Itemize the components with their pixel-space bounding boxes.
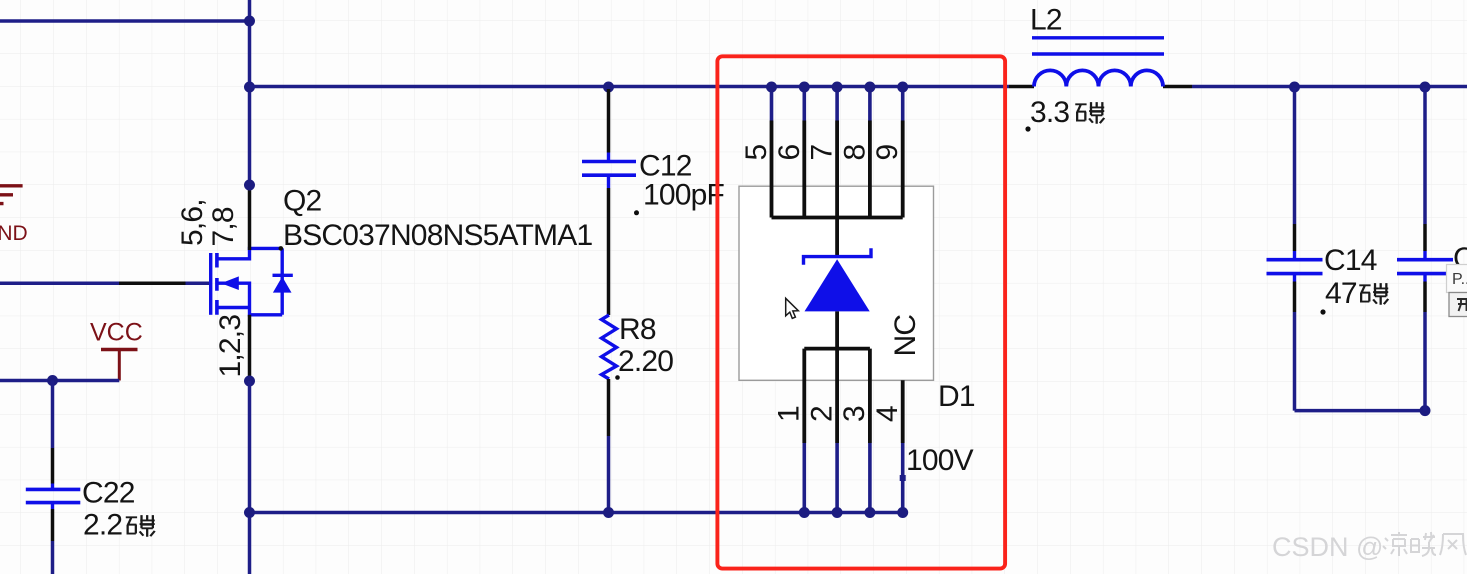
wire C22 branch: [51, 381, 55, 574]
capacitor C22: [26, 484, 81, 510]
svg-text:D1: D1: [938, 380, 975, 413]
svg-text:VCC: VCC: [90, 319, 143, 347]
D1 top pin stubs: [772, 88, 903, 121]
pin number 3: [838, 406, 871, 422]
wire C14 branch: [1293, 88, 1297, 411]
svg-text:2.2: 2.2: [83, 509, 122, 542]
svg-text:8: 8: [838, 145, 871, 161]
designator D1: [938, 380, 975, 413]
value label 100V: [906, 444, 974, 477]
pin number 9: [871, 145, 904, 161]
junction bottom R8: [603, 507, 614, 518]
svg-text:Q2: Q2: [283, 185, 322, 218]
junction pins 5-9 on bus: [766, 82, 908, 93]
value label BSC037N08NS5ATMA1: [283, 219, 592, 252]
pin number 7: [806, 145, 839, 161]
R8 bottom pin: [607, 379, 611, 513]
svg-text:100pF: 100pF: [643, 179, 725, 212]
Q2 pin numbers 5,6,: [176, 199, 209, 246]
Q2 pin numbers 7,8: [207, 207, 240, 246]
pin number 1: [773, 406, 806, 422]
designator C14: [1324, 244, 1377, 277]
svg-text:GND: GND: [0, 222, 28, 245]
wire main bus: [250, 85, 1467, 89]
svg-text:P...: P...: [1452, 271, 1467, 288]
svg-text:47: 47: [1325, 277, 1357, 310]
designator C15 partial: [1453, 242, 1467, 275]
D1 NC pin 4: [900, 380, 906, 512]
svg-text:CSDN @: CSDN @: [1272, 532, 1383, 562]
svg-text:C14: C14: [1324, 244, 1377, 277]
junction source: [244, 376, 255, 387]
svg-text:100V: 100V: [906, 444, 974, 477]
wire VCC net: [0, 379, 119, 383]
Q2 drain pin: [248, 190, 252, 250]
wire top horizontal net: [0, 19, 250, 23]
capacitor C15: [1397, 251, 1453, 282]
value label 47uF: [1320, 277, 1388, 315]
watermark: [1272, 532, 1466, 562]
D1 cathode pins 5-9: [772, 121, 903, 258]
wire bottom bus: [250, 511, 903, 515]
pin number 4: [871, 406, 904, 422]
pin number 8: [838, 145, 871, 161]
NC label: [889, 315, 922, 357]
svg-text:7: 7: [806, 145, 839, 161]
value label 2.2uF: [83, 509, 155, 542]
junction bottom pins: [799, 507, 908, 518]
designator L2: [1030, 4, 1062, 37]
svg-text:L2: L2: [1030, 4, 1062, 37]
inductor L2: [1032, 38, 1164, 87]
schottky diode D1: [804, 248, 872, 311]
junction C14 tap: [1289, 82, 1300, 93]
svg-text:C22: C22: [82, 477, 135, 510]
C12 top pin: [607, 89, 611, 153]
inductor L2 pins: [1009, 85, 1192, 88]
junction C12 tap: [603, 82, 614, 93]
svg-text:1: 1: [773, 406, 806, 422]
wire C14 bottom: [1295, 409, 1426, 413]
junction bottom source: [244, 507, 255, 518]
capacitor C12: [582, 153, 636, 189]
svg-text:6: 6: [773, 145, 806, 161]
power port VCC: [90, 319, 143, 381]
designator C12: [639, 150, 692, 183]
designator R8: [619, 313, 656, 346]
wire source net vertical: [248, 381, 252, 574]
tooltip box: [1447, 265, 1467, 293]
wire gate net: [0, 282, 209, 286]
svg-text:1,2,3: 1,2,3: [214, 315, 247, 378]
svg-text:BSC037N08NS5ATMA1: BSC037N08NS5ATMA1: [283, 219, 592, 252]
svg-text:2.20: 2.20: [618, 345, 673, 378]
junction VCC net: [47, 375, 58, 386]
junction drain: [244, 180, 255, 191]
value label 2.20: [615, 345, 673, 380]
junction top-left: [244, 16, 255, 27]
tooltip button: [1449, 293, 1467, 317]
D1 anode center line: [835, 311, 839, 348]
svg-text:4: 4: [871, 406, 904, 422]
pin number 5: [740, 145, 773, 161]
junction bus tap: [244, 82, 255, 93]
pin number 2: [805, 406, 838, 422]
value label 3.3uH: [1025, 96, 1104, 132]
junction C15 tap: [1420, 82, 1431, 93]
svg-text:3: 3: [838, 406, 871, 422]
Q2 pin numbers 1,2,3: [214, 315, 247, 378]
highlight rectangle: [717, 56, 1005, 568]
svg-text:R8: R8: [619, 313, 656, 346]
Q2 source pin: [248, 315, 252, 377]
svg-text:3.3: 3.3: [1030, 96, 1069, 129]
junction C15 bottom: [1420, 405, 1431, 416]
svg-text:9: 9: [871, 145, 904, 161]
capacitor C14: [1267, 251, 1323, 282]
wire C12 to R8: [607, 188, 611, 315]
svg-text:NC: NC: [889, 315, 922, 357]
D1 anode pins 1-3: [804, 349, 870, 513]
resistor R8: [602, 315, 617, 379]
wire C15 branch: [1423, 88, 1427, 411]
transistor Q2: [211, 246, 293, 315]
svg-text:5,6,: 5,6,: [176, 199, 209, 246]
mouse cursor: [786, 298, 799, 318]
ground symbol GND: [0, 186, 28, 245]
wire vertical drain net: [248, 0, 252, 190]
value label 100pF: [634, 179, 725, 216]
svg-text:7,8: 7,8: [207, 207, 240, 246]
svg-text:5: 5: [740, 145, 773, 161]
designator C22: [82, 477, 135, 510]
designator Q2: [283, 185, 322, 218]
pin number 6: [773, 145, 806, 161]
svg-text:2: 2: [805, 406, 838, 422]
D1 body box: [739, 186, 934, 380]
